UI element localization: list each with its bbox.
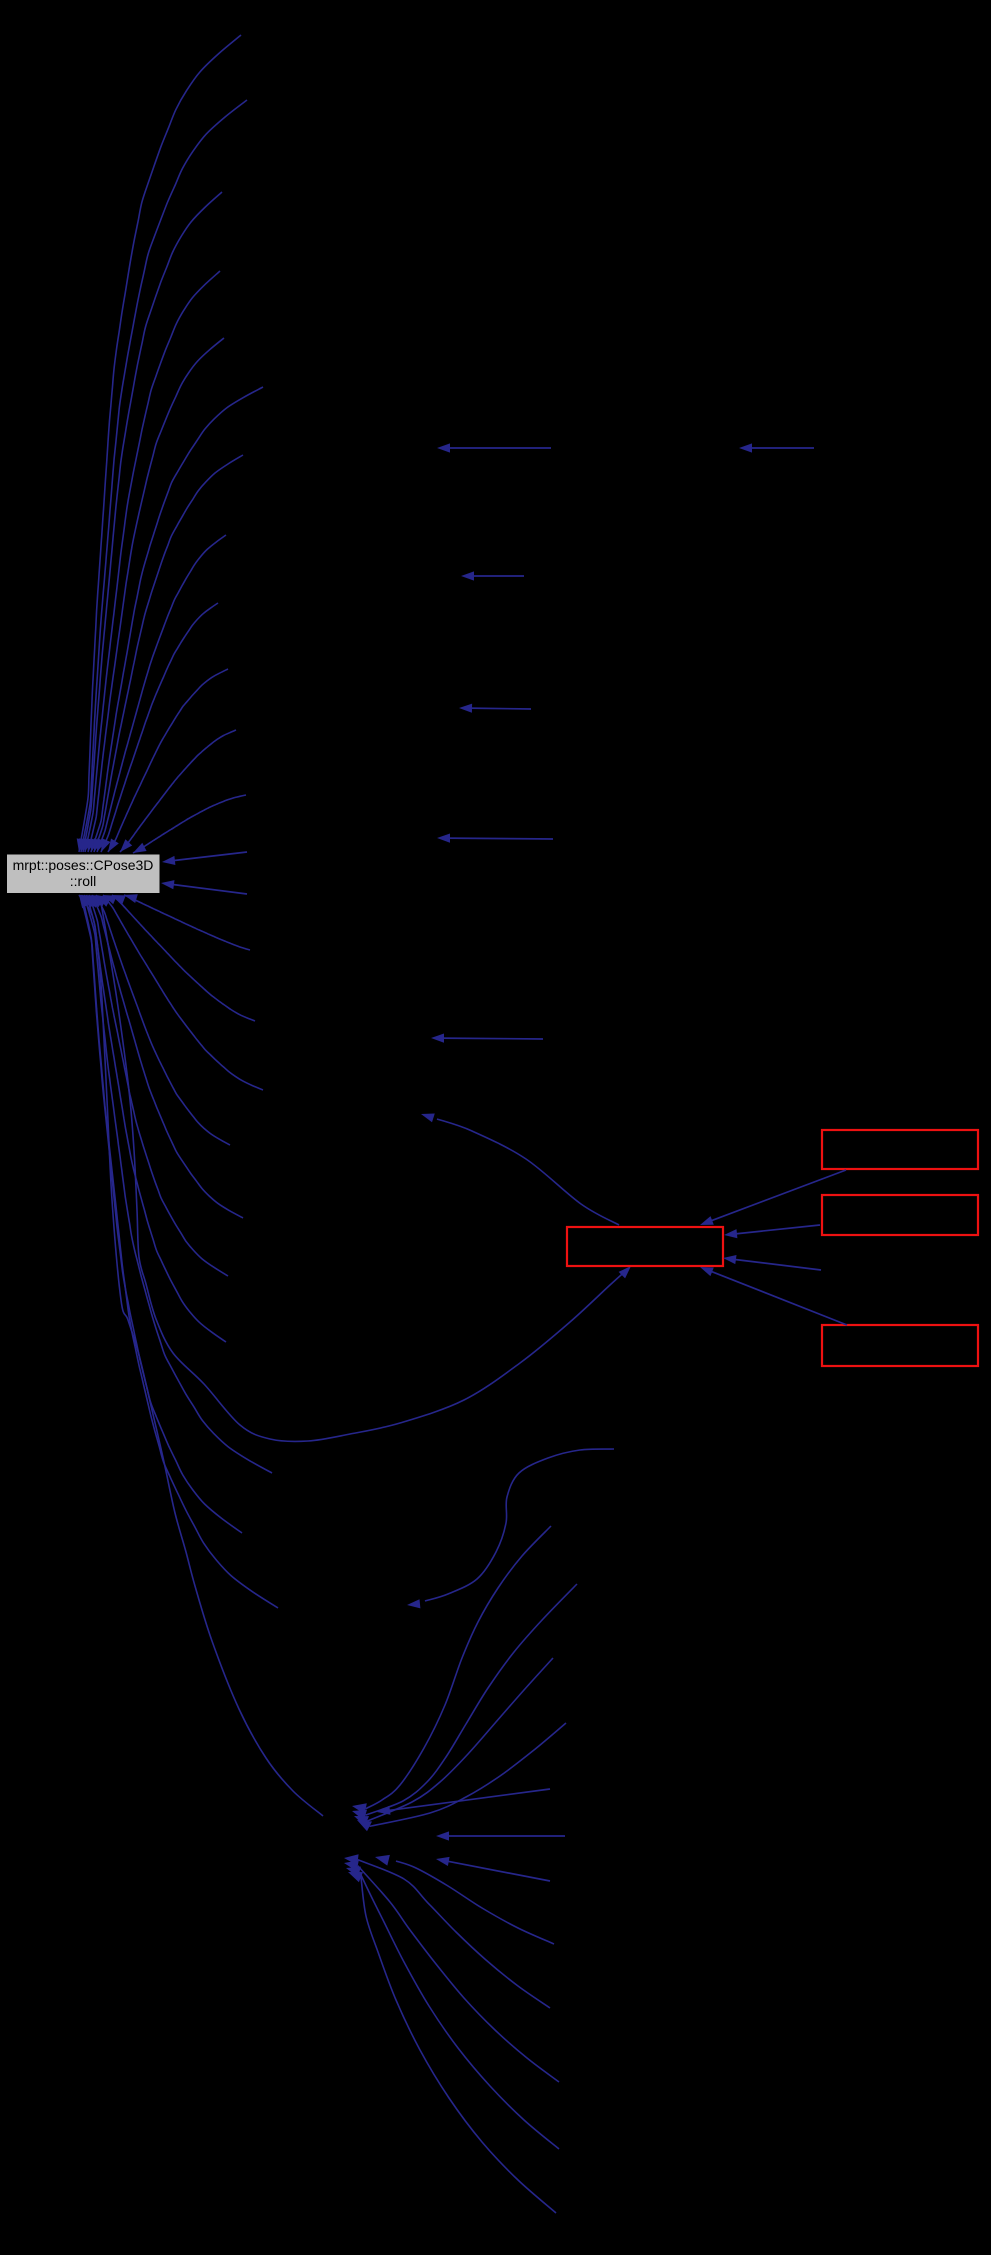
svg-text:::roll: ::roll [70,873,96,889]
svg-text:mrpt::poses::CPose3D: mrpt::poses::CPose3D [13,857,154,873]
